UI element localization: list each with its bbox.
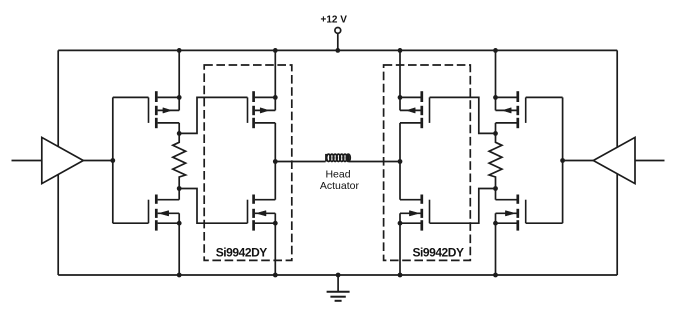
wire Q6 drain up (495, 189, 497, 200)
node Q2 source (177, 221, 182, 226)
wire Q6 source to ground rail (495, 223, 497, 275)
node Q5 source rail junction (493, 48, 498, 53)
inductor L1 head actuator coil (325, 154, 327, 162)
svg-text:Actuator: Actuator (320, 180, 360, 192)
node R2 bottom (493, 186, 498, 191)
op-amp buffer left (42, 137, 84, 183)
transistor Q2 n-channel (155, 195, 158, 204)
node Q3 source rail junction (273, 48, 278, 53)
node R1 bottom (177, 186, 182, 191)
node Q4 ground junction (273, 273, 278, 278)
wire Q5 source to rail (495, 50, 497, 97)
node Q2 ground junction (177, 273, 182, 278)
wire bottom ground rail (58, 274, 617, 276)
transistor Q5 p-channel (516, 91, 519, 102)
node output B (398, 159, 403, 164)
wire Q4 source to ground rail (274, 223, 276, 275)
node Q6 ground junction (493, 273, 498, 278)
svg-text:Si9942DY: Si9942DY (412, 246, 464, 260)
node +12V rail junction (335, 48, 340, 53)
op-amp buffer right (593, 137, 635, 183)
wire left amp output (83, 160, 113, 162)
wire Q2 source to ground rail (178, 223, 180, 275)
transistor Q3 p-channel (Si9942DY) (252, 91, 255, 102)
node Q4 source (273, 221, 278, 226)
wire R2 top to Q7 gate (430, 97, 496, 133)
wire left amp input (12, 160, 42, 162)
wire to Q5 gate (526, 96, 563, 98)
transistor Q6 n-channel (516, 195, 519, 204)
wire output node A to actuator (275, 161, 325, 163)
svg-text:Si9942DY: Si9942DY (216, 246, 268, 260)
wire right amp output (563, 160, 594, 162)
+12V supply terminal (335, 28, 341, 34)
transistor Q8 n-channel (Si9942DY) (420, 195, 423, 204)
transistor Q7 p-channel (Si9942DY) (420, 91, 423, 102)
ground (337, 275, 339, 292)
wire right rail (616, 50, 618, 275)
node Q7 source rail junction (398, 48, 403, 53)
package outline U1 Si9942DY (dashed) (204, 65, 292, 260)
node right amp output (560, 158, 565, 163)
transistor Q4 n-channel (Si9942DY) (252, 195, 255, 204)
wire to Q6 gate (526, 222, 563, 224)
svg-text:+12 V: +12 V (320, 14, 347, 25)
node ground rail junction (336, 273, 341, 278)
wire actuator to output node B (349, 161, 400, 163)
wire Q1 source to rail (178, 50, 180, 97)
node Q1 source (177, 95, 182, 100)
wire Q1 drain down (178, 123, 180, 133)
wire R1 top to Q3 gate (179, 97, 247, 133)
wire Q8 source to ground rail (399, 223, 401, 275)
node Q8 source (398, 221, 403, 226)
resistor R1 (173, 133, 186, 188)
node Q7 source (398, 95, 403, 100)
node Q8 ground junction (398, 273, 403, 278)
wire top +12V rail (58, 49, 617, 51)
wire left gate-drive vertical (112, 97, 114, 223)
wire Q7 drain to output (399, 123, 401, 162)
wire Q5 drain down (495, 123, 497, 133)
node Q1 source rail junction (177, 48, 182, 53)
wire to Q1 gate (113, 96, 149, 98)
wire right gate-drive vertical (562, 97, 564, 223)
wire Q4 drain to output (274, 162, 276, 200)
node Q6 source (493, 221, 498, 226)
wire Q2 drain up (178, 189, 180, 200)
wire to Q2 gate (113, 222, 149, 224)
package outline U2 Si9942DY (dashed) (384, 65, 471, 260)
svg-text:Head: Head (325, 168, 350, 180)
wire Q3 drain to output (274, 123, 276, 162)
wire left rail (57, 50, 59, 275)
wire Q3 source to rail (274, 50, 276, 97)
resistor R2 (489, 133, 502, 188)
wire R1 bottom to Q4 gate (179, 189, 247, 224)
node R2 top (493, 131, 498, 136)
transistor Q1 p-channel (155, 91, 158, 102)
node R1 top (177, 131, 182, 136)
node Q5 source (493, 95, 498, 100)
wire right amp input (635, 160, 665, 162)
node output A (273, 159, 278, 164)
wire Q7 source to rail (399, 50, 401, 97)
node Q3 source (273, 95, 278, 100)
node left amp output (110, 158, 115, 163)
wire Q8 drain to output (399, 162, 401, 200)
wire R2 bottom to Q8 gate (430, 189, 496, 224)
